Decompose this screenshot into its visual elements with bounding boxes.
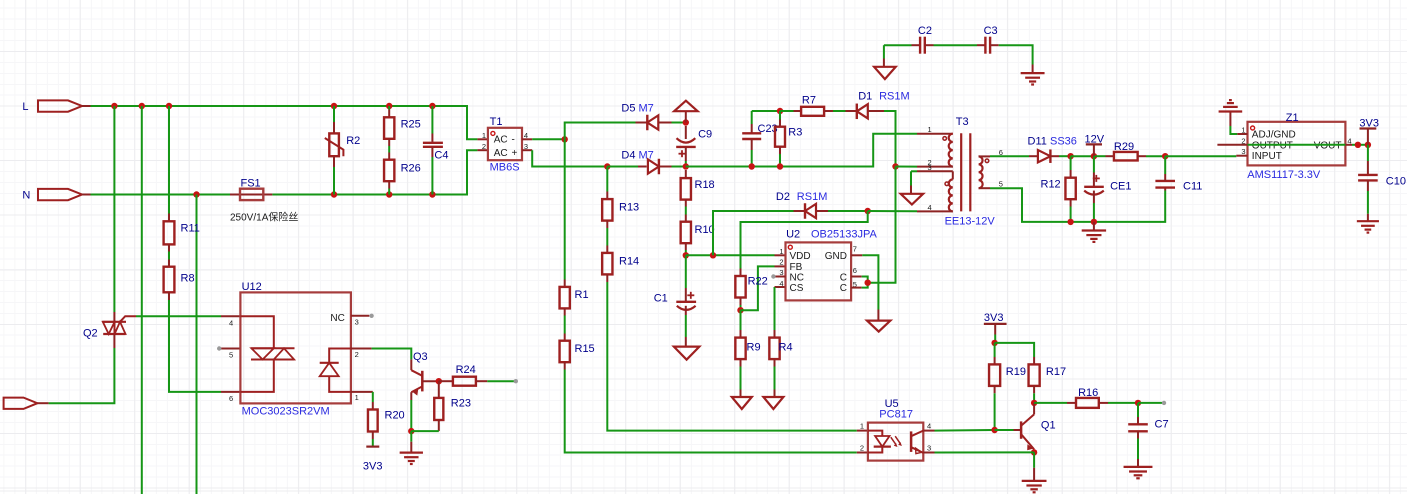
lead bbox=[883, 59, 885, 67]
lead bbox=[794, 210, 806, 212]
port L bbox=[38, 100, 91, 111]
capacitor CE1 bbox=[1084, 175, 1104, 195]
lead bbox=[740, 298, 742, 306]
no-connect U12 pin5 bbox=[217, 346, 221, 350]
svg-text:Q2: Q2 bbox=[83, 328, 98, 340]
wire N rail left bbox=[91, 194, 231, 196]
wire bbox=[431, 157, 433, 195]
wire bbox=[411, 430, 439, 432]
lead bbox=[410, 392, 412, 400]
svg-text:N: N bbox=[22, 190, 30, 202]
lead bbox=[113, 312, 115, 322]
resistor R29 bbox=[1114, 152, 1138, 161]
wire to Z1 pin3 bbox=[1165, 155, 1236, 157]
U2 pin3 lead bbox=[775, 276, 786, 278]
wire end R16 bbox=[1162, 401, 1166, 405]
junction bbox=[386, 191, 392, 197]
resistor R23 bbox=[434, 398, 443, 420]
svg-text:Z1: Z1 bbox=[1286, 112, 1299, 124]
wire bbox=[780, 110, 794, 112]
lead bbox=[168, 260, 170, 267]
wire bbox=[883, 45, 885, 58]
transistor Q1 bbox=[1021, 403, 1034, 450]
svg-text:R19: R19 bbox=[1006, 366, 1026, 378]
resistor R1 bbox=[560, 287, 570, 309]
wire secondary return bbox=[990, 188, 1165, 222]
wire bbox=[884, 44, 912, 46]
lead bbox=[990, 44, 999, 46]
lead bbox=[1164, 188, 1166, 191]
svg-text:R4: R4 bbox=[779, 341, 793, 353]
svg-text:U2: U2 bbox=[786, 229, 800, 241]
lead bbox=[1070, 199, 1072, 206]
resistor R17 bbox=[1029, 364, 1040, 386]
svg-text:OUTPUT: OUTPUT bbox=[1252, 141, 1293, 152]
transistor Q3 bbox=[411, 359, 439, 395]
junction bbox=[331, 103, 337, 109]
svg-text:RS1M: RS1M bbox=[879, 91, 910, 103]
ground Q1 bbox=[1022, 481, 1047, 492]
svg-text:R7: R7 bbox=[802, 94, 816, 106]
junction bbox=[737, 307, 743, 313]
svg-text:T3: T3 bbox=[956, 116, 969, 128]
junction bbox=[749, 163, 755, 169]
junction bbox=[865, 208, 871, 214]
U12 pin6 lead bbox=[221, 391, 240, 393]
lead 12V bbox=[1093, 144, 1095, 156]
wire bbox=[884, 111, 896, 167]
svg-text:1: 1 bbox=[928, 125, 932, 134]
lead bbox=[794, 110, 802, 112]
lead bbox=[877, 310, 879, 321]
wire bbox=[1352, 144, 1368, 146]
U12 pin5 lead bbox=[221, 348, 240, 350]
U2 pin2 lead bbox=[775, 265, 786, 267]
wire bbox=[1230, 126, 1237, 134]
lead bbox=[431, 148, 433, 157]
wire bbox=[994, 343, 996, 357]
junction bbox=[1091, 219, 1097, 225]
wire bbox=[1108, 402, 1138, 404]
lead bbox=[606, 274, 608, 282]
wire bbox=[431, 106, 433, 134]
wire bbox=[1137, 403, 1139, 417]
wire bbox=[740, 367, 742, 390]
resistor R4 bbox=[769, 338, 779, 360]
wire VOUT inside bbox=[1248, 144, 1346, 146]
port N bbox=[38, 189, 91, 200]
ground R9 bbox=[732, 397, 752, 409]
wire bbox=[779, 111, 781, 120]
wire bbox=[565, 123, 636, 140]
svg-text:C9: C9 bbox=[698, 128, 712, 140]
lead bbox=[388, 181, 390, 188]
lead bbox=[658, 122, 671, 124]
svg-text:3: 3 bbox=[355, 317, 359, 326]
svg-text:R1: R1 bbox=[575, 289, 589, 301]
junction bbox=[429, 103, 435, 109]
capacitor C11 bbox=[1155, 181, 1175, 188]
svg-text:R29: R29 bbox=[1114, 141, 1134, 153]
svg-text:AC: AC bbox=[494, 135, 508, 146]
U2 pin1 lead bbox=[775, 254, 786, 256]
lead bbox=[685, 215, 687, 222]
wire bbox=[911, 170, 917, 172]
junction bbox=[436, 378, 442, 384]
wire bbox=[672, 122, 686, 124]
svg-text:R26: R26 bbox=[401, 163, 421, 175]
svg-text:GND: GND bbox=[825, 251, 847, 262]
svg-text:Q3: Q3 bbox=[413, 351, 428, 363]
wire bbox=[333, 106, 335, 122]
svg-text:C1: C1 bbox=[654, 293, 668, 305]
lead bbox=[685, 111, 687, 122]
wire bbox=[994, 393, 996, 430]
lead bbox=[1164, 174, 1166, 181]
svg-text:L: L bbox=[22, 101, 28, 113]
svg-text:INPUT: INPUT bbox=[1252, 151, 1282, 162]
U12 pin1 lead bbox=[351, 391, 373, 393]
lead bbox=[372, 402, 374, 410]
junction bbox=[111, 103, 117, 109]
lead bbox=[1033, 449, 1035, 452]
lead bbox=[1137, 417, 1139, 424]
wire bbox=[1059, 155, 1071, 157]
junction bbox=[408, 428, 414, 434]
svg-text:R14: R14 bbox=[619, 255, 639, 267]
wire bbox=[868, 167, 896, 283]
svg-text:NC: NC bbox=[330, 313, 344, 324]
svg-text:R2: R2 bbox=[346, 135, 360, 147]
junction bbox=[892, 163, 898, 169]
resistor R3 bbox=[775, 127, 785, 147]
resistor R14 bbox=[602, 253, 612, 275]
U12 pin3 lead bbox=[351, 315, 369, 317]
lead bbox=[1070, 170, 1072, 178]
svg-text:1: 1 bbox=[779, 247, 783, 256]
pin 1 lead bbox=[477, 138, 488, 140]
svg-text:MOC3023SR2VM: MOC3023SR2VM bbox=[242, 405, 330, 417]
U2 pin6 lead bbox=[851, 276, 862, 278]
optocoupler U12 bbox=[240, 292, 351, 403]
svg-text:ADJ/GND: ADJ/GND bbox=[1252, 130, 1296, 141]
capacitor C23 bbox=[742, 133, 761, 139]
resistor R15 bbox=[560, 341, 570, 363]
wire bbox=[1164, 156, 1166, 174]
svg-text:AC: AC bbox=[494, 148, 508, 159]
no-connect U2 pin3 bbox=[771, 274, 775, 278]
wire bbox=[1138, 402, 1162, 404]
lead bbox=[1093, 173, 1095, 187]
wire bbox=[410, 400, 412, 431]
wire to T3 pin1 bbox=[686, 134, 917, 167]
wire to port bbox=[49, 348, 115, 403]
svg-text:R11: R11 bbox=[181, 223, 200, 235]
lead bbox=[1033, 386, 1035, 393]
Z1 pin3 lead bbox=[1236, 155, 1247, 157]
lead bbox=[685, 200, 687, 207]
svg-text:R17: R17 bbox=[1046, 366, 1066, 378]
svg-text:R20: R20 bbox=[385, 409, 405, 421]
wire bbox=[1367, 145, 1369, 161]
wire U5 pin3 to Q1 emitter bbox=[935, 451, 1035, 453]
capacitor C4 bbox=[423, 143, 443, 147]
svg-text:4: 4 bbox=[927, 422, 931, 431]
wire bbox=[1070, 156, 1072, 170]
junction bbox=[1031, 449, 1037, 455]
capacitor C2 bbox=[920, 37, 925, 54]
wire bbox=[168, 106, 170, 214]
wire bbox=[774, 287, 776, 330]
svg-text:VOUT: VOUT bbox=[1314, 141, 1342, 152]
junction bbox=[683, 119, 689, 125]
capacitor C9 bbox=[676, 138, 696, 157]
lead bbox=[1106, 155, 1115, 157]
wire bbox=[752, 110, 780, 112]
wire bbox=[934, 44, 978, 46]
resistor R25 bbox=[384, 117, 394, 139]
svg-text:SS36: SS36 bbox=[1050, 136, 1077, 148]
svg-text:C3: C3 bbox=[984, 25, 998, 37]
resistor R16 bbox=[1076, 398, 1099, 408]
lead bbox=[1367, 161, 1369, 175]
diode D2 bbox=[805, 203, 816, 219]
svg-text:R24: R24 bbox=[456, 364, 476, 376]
U12 pin2 lead bbox=[351, 348, 372, 350]
junction bbox=[193, 191, 199, 197]
wire bbox=[388, 106, 390, 110]
svg-text:R12: R12 bbox=[1041, 178, 1061, 190]
svg-text:R15: R15 bbox=[575, 343, 595, 355]
lead bbox=[1099, 402, 1108, 404]
svg-text:FB: FB bbox=[790, 262, 803, 273]
svg-text:4: 4 bbox=[779, 279, 783, 288]
svg-text:2: 2 bbox=[779, 258, 783, 267]
lead bbox=[685, 337, 687, 347]
svg-text:5: 5 bbox=[229, 351, 233, 360]
lead bbox=[606, 221, 608, 228]
junction bbox=[777, 108, 783, 114]
wire to R22 bbox=[741, 211, 868, 269]
svg-text:R13: R13 bbox=[619, 202, 639, 214]
junction bbox=[1091, 153, 1097, 159]
resistor R11 bbox=[164, 221, 175, 244]
lead bbox=[438, 381, 440, 398]
svg-text:C: C bbox=[840, 273, 847, 284]
lead bbox=[774, 390, 776, 398]
svg-text:M7: M7 bbox=[639, 103, 654, 115]
wire bbox=[751, 150, 753, 167]
pin 2 lead bbox=[477, 149, 488, 151]
lead bbox=[1229, 112, 1231, 127]
svg-text:2: 2 bbox=[482, 142, 486, 151]
lead bbox=[910, 186, 912, 194]
wire bbox=[935, 429, 994, 432]
ground C10 bbox=[1357, 221, 1379, 232]
wire bbox=[1033, 452, 1035, 467]
svg-text:R10: R10 bbox=[695, 224, 715, 236]
lead bbox=[685, 147, 687, 161]
lead bbox=[168, 214, 170, 222]
junction bbox=[331, 191, 337, 197]
svg-text:3V3: 3V3 bbox=[363, 460, 383, 472]
fuse FS1 bbox=[240, 189, 263, 200]
wire N rail right bbox=[272, 150, 477, 194]
svg-text:1: 1 bbox=[860, 422, 864, 431]
svg-text:R16: R16 bbox=[1078, 387, 1098, 399]
capacitor C10 bbox=[1358, 175, 1378, 181]
lead bbox=[1367, 214, 1369, 221]
no-connect U12 pin3 bbox=[369, 314, 373, 318]
lead bbox=[564, 280, 566, 287]
wire bbox=[564, 316, 566, 334]
wire bbox=[740, 305, 742, 310]
wire bbox=[685, 207, 687, 215]
svg-text:2: 2 bbox=[355, 350, 359, 359]
ground Q3 bbox=[400, 453, 423, 464]
wire bbox=[388, 146, 390, 153]
lead bbox=[431, 134, 433, 142]
wire bbox=[1093, 156, 1095, 172]
svg-text:3: 3 bbox=[1241, 147, 1245, 156]
lead bbox=[868, 110, 884, 112]
svg-text:AMS1117-3.3V: AMS1117-3.3V bbox=[1247, 169, 1321, 181]
ground U2 pin7 bbox=[867, 321, 890, 332]
pin 3 lead bbox=[522, 149, 532, 151]
resistor R13 bbox=[602, 199, 612, 221]
svg-text:D11: D11 bbox=[1028, 136, 1047, 148]
lead bbox=[638, 166, 647, 168]
U5 pin1 lead bbox=[857, 430, 868, 432]
bridge rectifier T1 bbox=[488, 128, 522, 160]
svg-text:D4: D4 bbox=[621, 150, 635, 162]
wire bbox=[1146, 155, 1165, 157]
svg-text:R9: R9 bbox=[747, 341, 761, 353]
wire bbox=[410, 431, 412, 442]
svg-text:C11: C11 bbox=[1183, 180, 1202, 192]
varistor R2 bbox=[325, 133, 344, 156]
svg-text:3: 3 bbox=[524, 142, 528, 151]
lead bbox=[779, 120, 781, 127]
resistor R8 bbox=[164, 267, 175, 293]
wire bbox=[113, 106, 115, 312]
lead bbox=[912, 44, 921, 46]
power 3V3 bar bbox=[984, 323, 1007, 325]
svg-text:6: 6 bbox=[229, 394, 233, 403]
junction bbox=[991, 427, 997, 433]
triac Q2 bbox=[102, 316, 136, 334]
svg-text:3V3: 3V3 bbox=[984, 312, 1004, 324]
ground C3 bbox=[1021, 73, 1045, 84]
svg-text:Q1: Q1 bbox=[1041, 419, 1056, 431]
U5 pin2 lead bbox=[857, 452, 868, 454]
lead bbox=[774, 330, 776, 338]
svg-text:4: 4 bbox=[229, 318, 233, 327]
wire bbox=[828, 210, 868, 212]
wire bbox=[1137, 439, 1139, 460]
junction bbox=[604, 163, 610, 169]
lead bbox=[846, 110, 857, 112]
lead bbox=[1137, 459, 1139, 467]
lead bbox=[685, 126, 687, 139]
diode D5 bbox=[647, 115, 658, 131]
svg-text:-: - bbox=[512, 135, 515, 146]
wire bbox=[994, 335, 996, 343]
junction bbox=[139, 103, 145, 109]
wire VDD bbox=[686, 254, 775, 256]
wire bbox=[532, 138, 565, 140]
ground CE1 bbox=[1082, 231, 1106, 242]
lead bbox=[685, 243, 687, 250]
lead bbox=[438, 420, 440, 431]
wire bbox=[779, 154, 781, 167]
wire bbox=[685, 315, 687, 337]
wire bbox=[372, 439, 374, 447]
lead bbox=[740, 330, 742, 338]
wire bbox=[333, 167, 335, 195]
wire bbox=[606, 167, 608, 192]
ground R4 bbox=[763, 397, 783, 409]
lead bbox=[439, 380, 453, 382]
Z1 pin2 lead bbox=[1217, 144, 1247, 146]
junction bbox=[1067, 153, 1073, 159]
junction bbox=[683, 252, 689, 258]
power 12V bbox=[1086, 143, 1102, 145]
lead bbox=[1029, 155, 1037, 157]
svg-text:C2: C2 bbox=[918, 25, 932, 37]
lead bbox=[1033, 468, 1035, 481]
svg-text:R8: R8 bbox=[181, 272, 195, 284]
svg-text:R22: R22 bbox=[748, 276, 768, 288]
wire bbox=[1093, 203, 1095, 222]
svg-text:PC817: PC817 bbox=[879, 409, 913, 421]
lead bbox=[1137, 431, 1139, 438]
svg-text:CE1: CE1 bbox=[1110, 180, 1131, 192]
U2 pin7 lead bbox=[851, 254, 862, 256]
wire N column bbox=[196, 195, 198, 494]
lead bbox=[977, 44, 985, 46]
svg-text:3: 3 bbox=[927, 443, 931, 452]
diode D11 bbox=[1038, 149, 1051, 163]
wire bbox=[685, 255, 687, 288]
wire to U12 pin6 bbox=[169, 300, 221, 392]
wire bbox=[672, 166, 686, 168]
wire bbox=[685, 250, 687, 255]
wire bbox=[607, 166, 638, 168]
lead bbox=[1014, 429, 1022, 431]
lead bbox=[168, 292, 170, 300]
wire bbox=[862, 283, 868, 288]
lead bbox=[779, 147, 781, 154]
capacitor C1 bbox=[676, 292, 696, 310]
wire bbox=[995, 343, 1035, 357]
svg-text:3: 3 bbox=[928, 163, 932, 172]
lead bbox=[685, 170, 687, 178]
lead bbox=[1367, 180, 1369, 191]
wire Q2 gate to U12 pin4 bbox=[136, 315, 221, 317]
controller U2 bbox=[786, 242, 852, 300]
lead bbox=[606, 246, 608, 253]
junction bbox=[1135, 400, 1141, 406]
resistor R26 bbox=[384, 160, 394, 182]
pin 4 lead bbox=[522, 138, 532, 140]
lead bbox=[564, 308, 566, 315]
lead bbox=[606, 192, 608, 200]
wire L rail bbox=[91, 106, 478, 139]
svg-text:VDD: VDD bbox=[790, 251, 811, 262]
wire bbox=[487, 380, 516, 382]
lead bbox=[740, 359, 742, 366]
